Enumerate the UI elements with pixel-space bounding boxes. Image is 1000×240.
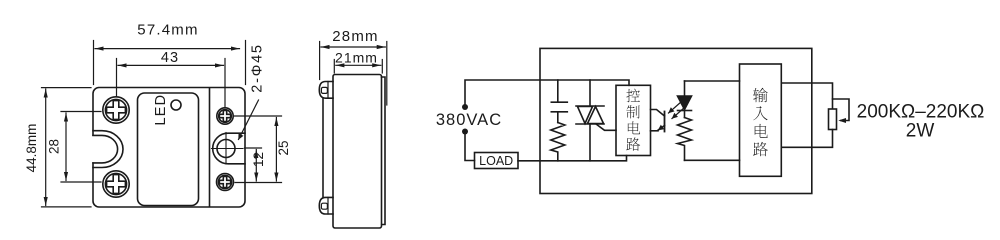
- dimension 28mm depth: [320, 28, 387, 105]
- svg-text:380VAC: 380VAC: [436, 111, 502, 129]
- input screw 4 (bottom-right): [217, 174, 234, 191]
- phototransistor Q2: [651, 110, 665, 132]
- side view top terminal screw profile: [319, 82, 333, 99]
- dimension 21mm body depth: [334, 50, 382, 74]
- wire resistor bottom to input box: [685, 159, 740, 161]
- wire load to bottom rail: [518, 156, 627, 161]
- side view bottom terminal screw profile: [319, 197, 333, 214]
- resistor R2 input series: [678, 118, 692, 161]
- capacitor C1 snubber: [551, 80, 567, 123]
- wire trimmer bottom to input box: [781, 130, 832, 148]
- svg-text:21mm: 21mm: [335, 50, 378, 66]
- adjustable resistor R3: [829, 99, 850, 130]
- wire AC top rail: [465, 80, 629, 107]
- SSR right terminal strip divider: [209, 88, 211, 207]
- svg-text:57.4mm: 57.4mm: [137, 22, 198, 39]
- terminal screw output 1 (top-left): [103, 97, 129, 123]
- SSR outline box: [540, 48, 812, 193]
- node AC terminal 1: [462, 104, 468, 110]
- svg-text:2-Φ45: 2-Φ45: [250, 43, 266, 93]
- wire AC terminal 2 to load: [465, 132, 475, 161]
- terminal screw output 2 (bottom-left): [103, 171, 129, 197]
- LED D1 optocoupler input: [678, 81, 692, 118]
- input screw 3 (top-right): [217, 108, 233, 124]
- mounting hole with crosshair: [212, 133, 244, 165]
- SSR body side view: [333, 75, 382, 229]
- load box: [475, 153, 519, 169]
- resistor R1 snubber: [551, 123, 565, 161]
- svg-text:LED: LED: [153, 94, 169, 126]
- input circuit box: [740, 64, 782, 176]
- svg-text:2W: 2W: [906, 121, 935, 142]
- label 200KOhm-220KOhm: [857, 102, 985, 123]
- mounting notch outer boss: [93, 131, 123, 168]
- side view rear plate edge: [382, 77, 386, 225]
- svg-text:28mm: 28mm: [332, 28, 378, 45]
- SSR body front view: [93, 88, 245, 208]
- label 2-Phi45 mounting holes: [239, 43, 266, 139]
- svg-text:200KΩ–220KΩ: 200KΩ–220KΩ: [857, 102, 985, 123]
- control circuit box: [616, 85, 651, 155]
- mounting hole tab (middle-right): [213, 133, 245, 164]
- svg-text:12: 12: [251, 152, 266, 167]
- dimension 12: [235, 148, 282, 183]
- svg-text:25: 25: [276, 140, 291, 155]
- svg-text:28: 28: [47, 139, 62, 154]
- svg-text:LOAD: LOAD: [479, 154, 513, 168]
- mounting notch slot: [93, 135, 118, 163]
- svg-text:44.8mm: 44.8mm: [24, 124, 39, 173]
- dimension 25: [234, 116, 291, 181]
- control circuit box label 控制电路: [626, 89, 640, 151]
- svg-text:43: 43: [161, 50, 179, 66]
- LED label on panel: [153, 94, 169, 126]
- dimension 57.4mm width: [94, 22, 246, 85]
- optocoupler light arrows: [669, 102, 686, 119]
- label 380VAC: [436, 111, 502, 129]
- side view base plate line: [322, 98, 324, 197]
- wire input box to trimmer top: [781, 83, 832, 109]
- dimension 44.8mm height: [24, 88, 91, 207]
- triac Q1: [576, 80, 616, 161]
- node AC terminal 2: [462, 129, 468, 135]
- SSR center panel: [138, 93, 199, 206]
- LED indicator circle: [171, 100, 181, 110]
- input circuit box label 输入电路: [753, 88, 768, 156]
- label LOAD: [479, 154, 513, 168]
- dimension 43 screw spacing: [117, 50, 226, 108]
- dimension 28 left screw spacing: [47, 112, 102, 183]
- wire LED branch top to input box: [685, 80, 740, 82]
- label 2W: [906, 121, 935, 142]
